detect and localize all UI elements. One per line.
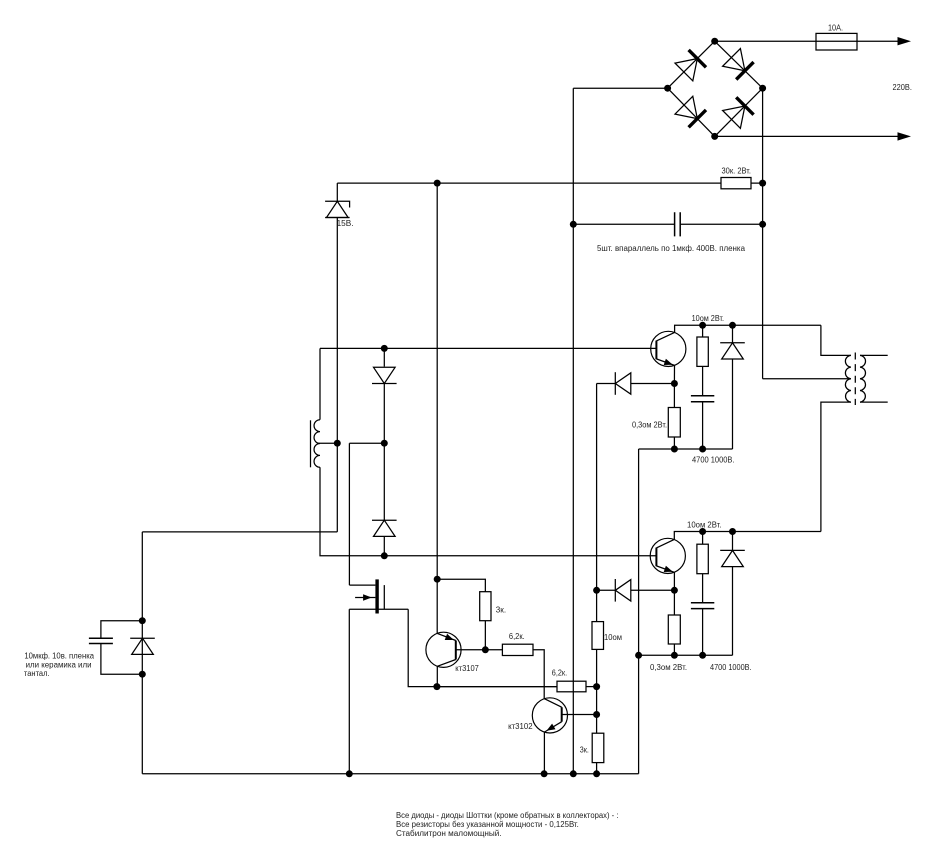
MOSFET VT1 gate lead bbox=[349, 584, 375, 586]
transistor VT3 kt3102 circle bbox=[532, 698, 567, 733]
transistor VT4 base bar bbox=[655, 341, 657, 360]
transistor VT3 collector diagonal bbox=[544, 699, 561, 708]
bridge diode D3 (left-bottom arm) bbox=[675, 96, 706, 127]
wire: 220V output bottom bbox=[715, 135, 898, 137]
transistor VT4 collector diagonal bbox=[656, 332, 674, 341]
svg-text:5шт. впараллель по 1мкф. 400В.: 5шт. впараллель по 1мкф. 400В. пленка bbox=[597, 244, 746, 253]
svg-text:10ом: 10ом bbox=[604, 633, 622, 642]
arrow: output top bbox=[898, 37, 912, 45]
transistor VT2 emitter arrowhead bbox=[445, 634, 454, 640]
resistor R4 6.2k bbox=[557, 681, 586, 692]
node: VD8 top on y531 bbox=[729, 528, 736, 535]
capacitor C4 4700 1000V plates bbox=[691, 603, 714, 609]
wire: 3k bottom lead bbox=[484, 621, 486, 650]
wire: VD6 top lead bbox=[732, 325, 734, 343]
wire: bridge arm bottom-right bbox=[715, 88, 763, 136]
wire: inductor center tap bbox=[318, 442, 338, 444]
wire: 220V output top bbox=[715, 40, 898, 42]
transistor VT5 emitter arrowhead bbox=[664, 566, 673, 572]
zener VD1 15V bbox=[325, 201, 350, 217]
svg-text:Все резисторы без указанной мо: Все резисторы без указанной мощности - 0… bbox=[396, 820, 579, 829]
bridge diode D4 (bottom-right arm) bbox=[723, 97, 754, 128]
node: 3k tap on x437 bbox=[434, 576, 441, 583]
node: x638 y655 bbox=[635, 652, 642, 659]
wire: to R3 bbox=[485, 649, 502, 651]
svg-text:30к. 2Вт.: 30к. 2Вт. bbox=[722, 167, 752, 176]
svg-text:тантал.: тантал. bbox=[24, 669, 50, 678]
diode VD7 (points left) bbox=[615, 579, 631, 602]
svg-text:15В.: 15В. bbox=[337, 219, 354, 228]
wire: VD6 bottom lead bbox=[732, 359, 734, 449]
wire: VT5 collector up and top row y531 bbox=[674, 532, 821, 540]
resistor R2 3k bbox=[480, 592, 491, 621]
wire: R5 leads bbox=[673, 384, 675, 450]
wire: x573 redraw over R4 bbox=[572, 681, 574, 692]
svg-text:0,3ом 2Вт.: 0,3ом 2Вт. bbox=[650, 663, 687, 672]
wire: gate vertical x349 bbox=[348, 443, 350, 585]
inductor L1 core bar bbox=[310, 420, 312, 467]
node: cap row left bbox=[570, 221, 577, 228]
wire: 3k branch top bbox=[437, 579, 485, 592]
resistor R10 10om 2W bbox=[697, 544, 708, 574]
wire: D1-D2 mid bbox=[383, 384, 385, 444]
transistor VT4 emitter diagonal bbox=[656, 359, 674, 366]
wire: x320 down to inductor bbox=[319, 348, 321, 419]
wire: zener line down x337 bbox=[336, 218, 338, 532]
wire: R9 leads bbox=[673, 590, 675, 655]
svg-text:3к.: 3к. bbox=[580, 746, 589, 755]
resistor R9 0.3om 2W bbox=[668, 615, 680, 644]
transistor VT3 emitter diagonal bbox=[544, 722, 561, 732]
wire: link y531.9 to left bbox=[142, 531, 337, 533]
wire: VT5 emitter down bbox=[673, 572, 675, 590]
wire: x596 y686 to y714 bbox=[596, 687, 598, 734]
transistor VT2 base bar bbox=[455, 641, 457, 660]
transistor VT3 base bar bbox=[561, 707, 563, 722]
svg-text:10ом 2Вт.: 10ом 2Вт. bbox=[687, 520, 722, 529]
wire: VT2 base to node bbox=[456, 649, 486, 651]
node: block1 bottom left bbox=[671, 446, 678, 453]
transistor VT2 kt3107 circle bbox=[426, 632, 461, 667]
MOSFET VT1 source line bbox=[383, 585, 385, 609]
arrow: output bottom bbox=[898, 132, 912, 140]
wire: R7 bottom lead bbox=[596, 649, 598, 686]
svg-text:6,2к.: 6,2к. bbox=[509, 632, 525, 641]
transformer T1 core bbox=[854, 353, 856, 406]
node: rail x544 bbox=[541, 770, 548, 777]
svg-text:4700 1000В.: 4700 1000В. bbox=[692, 455, 735, 464]
resistor R8 3k bbox=[592, 733, 604, 762]
node: bridge right bbox=[759, 85, 766, 92]
wire: bridge arm top-right bbox=[715, 41, 763, 88]
wire: R3 to corner then down bbox=[533, 650, 544, 699]
transistor VT2 emitter diagonal (top) bbox=[437, 633, 456, 640]
wire: x596 to R9 bbox=[596, 590, 598, 621]
wire: zener branch top bbox=[336, 183, 338, 201]
transistor VT5 emitter diagonal bbox=[656, 566, 674, 573]
node: x596 y590 bbox=[593, 587, 600, 594]
wire: VT4 collector up and top row y325 bbox=[675, 325, 821, 332]
wire: filter cap row right bbox=[680, 223, 762, 225]
transistor VT5 collector diagonal bbox=[656, 539, 674, 548]
bridge diode D1 (left-top arm) bbox=[675, 50, 706, 81]
transistor VT5 base bar bbox=[655, 548, 657, 567]
wire: +rail horizontal y183 bbox=[337, 182, 762, 184]
capacitor C3 4700 1000V plates bbox=[691, 396, 714, 402]
bridge diode D2 (top-right arm) bbox=[723, 49, 754, 80]
wire: x437 vertical bbox=[436, 183, 438, 633]
svg-text:3к.: 3к. bbox=[496, 606, 506, 615]
node: R10 top on y531 bbox=[699, 528, 706, 535]
node: C2 bottom bbox=[139, 671, 146, 678]
node: cap row right bbox=[759, 221, 766, 228]
svg-text:10мкф. 10в. пленка: 10мкф. 10в. пленка bbox=[24, 651, 94, 660]
svg-text:кт3107: кт3107 bbox=[455, 664, 479, 673]
wire: R6 leads bbox=[702, 325, 704, 395]
wire: bottom row corner to transformer bbox=[821, 402, 851, 531]
wire: x638 vertical to rail bbox=[638, 449, 640, 774]
wire: R4 right lead bbox=[586, 686, 597, 688]
wire: MOSFET bottom row bbox=[349, 608, 408, 610]
svg-text:10А.: 10А. bbox=[828, 24, 843, 33]
wire: bridge arm left-top bbox=[668, 41, 715, 88]
node: VD6 top on y325 bbox=[729, 322, 736, 329]
wire: bridge right node vertical x762 bbox=[762, 88, 764, 379]
wire: emitter diode row 2 leads bbox=[597, 589, 675, 591]
node: bridge top bbox=[711, 38, 718, 45]
wire: C3 bottom lead bbox=[702, 402, 704, 449]
MOSFET VT1 substrate arrowhead bbox=[363, 594, 372, 601]
transistor VT5 (lower output) circle bbox=[650, 538, 685, 573]
wire: x596 vertical bbox=[596, 384, 598, 591]
wire: x349 down to ground rail bbox=[348, 609, 350, 774]
node: D mid bbox=[381, 440, 388, 447]
capacitor C1 5x1uF 400V plates bbox=[675, 212, 681, 236]
wire: y686 row left of R4 bbox=[437, 686, 557, 688]
wire: C2 branch top bbox=[101, 621, 142, 639]
node: rail x573 bbox=[570, 770, 577, 777]
wire: VT3 emitter down bbox=[543, 732, 545, 774]
wire: x762 to transformer center tap bbox=[763, 378, 851, 380]
svg-text:220В.: 220В. bbox=[893, 83, 912, 92]
node: D1 anode on Q1 base row bbox=[381, 345, 388, 352]
node: tap on zener line bbox=[334, 440, 341, 447]
wire: C4 bottom lead bbox=[702, 609, 704, 656]
wire: bridge arm left-bottom bbox=[668, 88, 715, 136]
node: D2 on Q2 base row bbox=[381, 552, 388, 559]
resistor R6 10om 2W bbox=[697, 337, 708, 366]
wire: block2 bottom row bbox=[639, 654, 733, 656]
inductor L1 winding bbox=[314, 420, 320, 468]
wire: VT3 base to x596 bbox=[562, 714, 597, 716]
transistor VT2 collector diagonal (bottom) bbox=[437, 660, 456, 667]
wire: bridge left node to left rail bbox=[573, 87, 667, 89]
wire: VD8 bottom lead bbox=[732, 567, 734, 656]
wire: secondary top lead bbox=[860, 354, 888, 356]
svg-text:0,3ом 2Вт.: 0,3ом 2Вт. bbox=[632, 420, 667, 429]
wire: secondary bottom lead bbox=[860, 401, 888, 403]
wire: filter cap row left bbox=[573, 223, 674, 225]
MOSFET VT1 substrate arrow line bbox=[355, 597, 375, 599]
transistor VT4 (upper output) circle bbox=[651, 331, 686, 366]
wire: D-midpoint to gate corner bbox=[349, 442, 384, 444]
diode VD4 (points up) bbox=[372, 520, 397, 536]
wire: D1 top lead bbox=[383, 348, 385, 366]
transformer T1 secondary winding bbox=[860, 355, 866, 402]
svg-text:10ом 2Вт.: 10ом 2Вт. bbox=[692, 314, 724, 323]
wire: left rail vertical x573 bbox=[572, 88, 574, 774]
node: VT4 emitter bbox=[671, 380, 678, 387]
resistor R7 10om bbox=[592, 622, 604, 650]
node: y183 right end bbox=[759, 180, 766, 187]
wire: VD8 top lead bbox=[732, 532, 734, 551]
node: base row junction bbox=[482, 646, 489, 653]
node: R6 top on y325 bbox=[699, 322, 706, 329]
node: VT2 collector on y686 bbox=[433, 683, 440, 690]
diode VD2 (parallel with C2) bbox=[130, 638, 155, 654]
transistor VT4 emitter arrowhead bbox=[664, 359, 673, 365]
node: VT3 base junction bbox=[593, 711, 600, 718]
wire: Q1 base row y348 bbox=[320, 347, 656, 349]
node: block2 bottom left bbox=[671, 652, 678, 659]
diode VD3 (points down) bbox=[372, 367, 397, 383]
node: rail x596 bbox=[593, 770, 600, 777]
node: y686 right bbox=[593, 683, 600, 690]
fuse F1 10A bbox=[816, 33, 857, 50]
resistor R5 0.3om 2W bbox=[668, 408, 680, 438]
wire: x408 down then right bbox=[408, 609, 557, 686]
MOSFET VT1 channel bar bbox=[375, 579, 378, 613]
node: C3 bottom bbox=[699, 446, 706, 453]
diode VD6 (points up) bbox=[720, 343, 745, 359]
node: VT5 emitter bbox=[671, 587, 678, 594]
node: C2 top bbox=[139, 617, 146, 624]
svg-text:Стабилитрон маломощный.: Стабилитрон маломощный. bbox=[396, 829, 502, 838]
wire: block1 bottom row bbox=[639, 448, 733, 450]
svg-text:Все диоды - диоды Шоттки (кром: Все диоды - диоды Шоттки (кроме обратных… bbox=[396, 811, 619, 820]
node: bridge left bbox=[664, 85, 671, 92]
diode VD8 (points up) bbox=[720, 550, 745, 566]
wire: ground rail bbox=[142, 773, 638, 775]
wire: VT4 emitter down bbox=[673, 365, 675, 383]
resistor R3 6.2k bbox=[502, 644, 533, 655]
diode VD5 (points left) bbox=[615, 372, 631, 395]
transformer T1 primary winding bbox=[845, 355, 851, 402]
wire: D2 bottom lead bbox=[383, 536, 385, 555]
wire: top row corner to transformer bbox=[821, 325, 851, 355]
svg-text:4700 1000В.: 4700 1000В. bbox=[710, 663, 752, 672]
wire: R10 leads bbox=[702, 532, 704, 603]
node: y183 x437 tap bbox=[434, 180, 441, 187]
resistor R1 30k 2W bbox=[721, 178, 751, 189]
transistor VT3 emitter arrowhead bbox=[547, 724, 556, 731]
node: rail x349 bbox=[346, 770, 353, 777]
svg-text:6,2к.: 6,2к. bbox=[552, 668, 567, 677]
wire: left vertical x142 bbox=[141, 532, 143, 774]
wire: VT2 collector down bbox=[436, 666, 438, 686]
wire: R8 bottom lead bbox=[596, 763, 598, 774]
node: bridge bottom bbox=[711, 133, 718, 140]
node: C4 bottom bbox=[699, 652, 706, 659]
wire: D2 top lead bbox=[383, 443, 385, 520]
svg-text:кт3102: кт3102 bbox=[508, 722, 533, 731]
wire: C2 branch bottom bbox=[101, 644, 142, 675]
capacitor C2 10uF plates bbox=[89, 638, 113, 643]
wire: inductor bottom to Q2 base row bbox=[320, 467, 656, 556]
wire: emitter diode row 1 leads bbox=[597, 383, 675, 385]
